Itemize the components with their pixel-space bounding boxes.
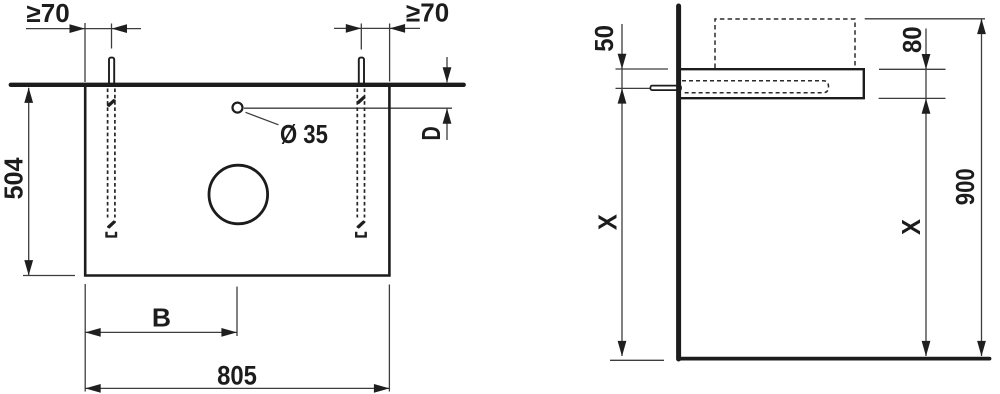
svg-text:504: 504 <box>0 157 28 200</box>
svg-text:50: 50 <box>590 25 619 52</box>
svg-text:X: X <box>897 219 926 235</box>
svg-text:D: D <box>416 126 445 140</box>
svg-text:900: 900 <box>951 168 980 205</box>
svg-text:≥70: ≥70 <box>406 0 449 27</box>
svg-text:B: B <box>152 303 171 333</box>
svg-text:X: X <box>594 214 623 230</box>
svg-text:80: 80 <box>898 26 927 53</box>
svg-text:≥70: ≥70 <box>27 0 70 28</box>
svg-text:805: 805 <box>217 361 257 390</box>
svg-text:Ø 35: Ø 35 <box>280 120 328 149</box>
